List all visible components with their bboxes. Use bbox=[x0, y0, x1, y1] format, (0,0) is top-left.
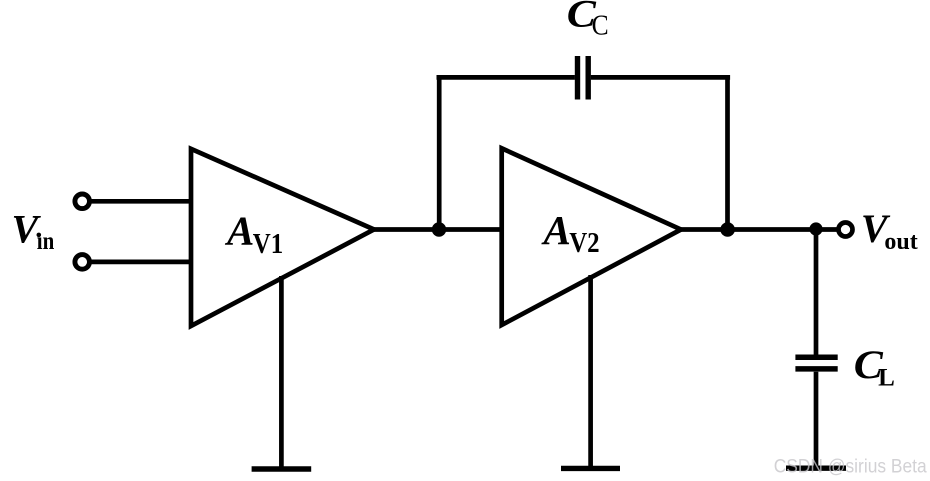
svg-text:L: L bbox=[878, 364, 895, 391]
svg-text:V1: V1 bbox=[253, 229, 283, 260]
svg-text:ın: ın bbox=[37, 228, 55, 255]
svg-text:out: out bbox=[884, 229, 917, 255]
svg-text:V2: V2 bbox=[569, 228, 599, 259]
svg-text:A: A bbox=[541, 207, 571, 253]
svg-text:A: A bbox=[224, 208, 254, 254]
svg-text:C: C bbox=[592, 10, 609, 41]
svg-text:CSDN @sirius Beta: CSDN @sirius Beta bbox=[774, 456, 927, 477]
